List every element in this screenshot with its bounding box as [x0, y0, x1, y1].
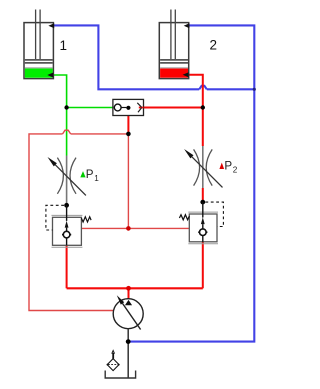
svg-text:P: P	[86, 168, 94, 181]
wire: suction line pump to tank	[127, 329, 129, 378]
PC2 inner arrow and orifice	[202, 202, 204, 217]
pump outlet triangle	[125, 300, 132, 305]
cylinder 1 port arrow top	[48, 23, 54, 28]
flow control valve V2	[184, 146, 238, 188]
wire: red flow valve 2 bottom segment	[202, 188, 204, 202]
strainer / breather	[107, 350, 120, 370]
wire: thin red compensator pilot link	[81, 227, 189, 229]
wire: blue return line cylinder 1 top to right bus	[53, 25, 254, 341]
wire: red shuttle valve outlet down	[127, 108, 129, 134]
wire: thin red load-sensing line to pump control	[29, 130, 189, 310]
pressure compensator PC1	[46, 205, 91, 247]
cylinder 1 green chamber fill	[25, 69, 53, 78]
cylinder 1 port arrow bottom	[47, 73, 53, 78]
svg-text:2: 2	[233, 166, 238, 175]
node blue T-junction	[253, 88, 256, 91]
wire: red bridge over green line	[63, 130, 71, 134]
wire: green line cylinder 1 bottom to node A	[53, 75, 113, 156]
label P1	[80, 171, 85, 177]
wire: blue bridge over red line	[199, 86, 207, 90]
svg-text:P: P	[224, 160, 232, 173]
PC2 spring	[179, 215, 189, 220]
label P2	[219, 163, 224, 169]
wire: red compensator 2 output down	[202, 242, 204, 288]
node compensator link junction	[126, 226, 131, 231]
node pilot junction 1	[64, 203, 69, 208]
cylinder 2 port arrow bottom	[183, 72, 189, 77]
wire: blue return line cylinder 2 top down right side to tank	[128, 25, 254, 341]
V2 adjustment arrow	[192, 157, 223, 188]
wire: red line cylinder 2 bottom to node B	[67, 75, 203, 289]
svg-text:1: 1	[94, 174, 99, 183]
node pump outlet junction	[126, 286, 131, 291]
PC1 inner arrow and orifice	[66, 205, 68, 221]
cylinder 2 port arrow top	[184, 23, 190, 28]
V1 adjustment arrow	[55, 165, 86, 196]
node B red junction	[201, 105, 205, 109]
shuttle ball	[114, 104, 121, 111]
PC2 pilot dashed line	[205, 202, 223, 226]
node LS junction	[126, 132, 131, 137]
cylinder 2 red chamber fill	[160, 69, 188, 78]
cylinder 1	[24, 10, 67, 79]
node shuttle outlet	[126, 106, 130, 110]
wire: red pump pressure header	[67, 287, 203, 289]
shuttle valve U3	[113, 99, 144, 115]
node pilot junction 2	[200, 200, 205, 205]
wire: red compensator 1 output down	[66, 245, 68, 288]
wire: red pump outlet riser	[128, 288, 130, 299]
shuttle right seat chevron	[137, 103, 141, 112]
cylinder 1 piston	[25, 59, 53, 61]
node tank line junction	[126, 339, 131, 344]
flow control valve V1	[48, 156, 100, 204]
cylinder 2	[159, 10, 217, 79]
red segment inside shuttle	[139, 107, 144, 109]
svg-text:2: 2	[210, 38, 218, 53]
PC1 spring	[81, 217, 91, 222]
tank T	[105, 371, 135, 379]
PC1 pilot dashed line	[46, 205, 64, 230]
wire: thin red LS drop to compensator link	[127, 134, 129, 229]
cylinder 1 rod lines	[35, 10, 37, 61]
pressure compensator PC2	[179, 202, 223, 244]
svg-text:1: 1	[60, 38, 68, 53]
pump variable arrow	[123, 303, 141, 329]
cylinder 2 rod lines	[170, 10, 172, 61]
cylinder 2 piston	[160, 59, 188, 61]
node A green junction	[64, 105, 68, 109]
pump P	[113, 295, 143, 329]
wire: red shuttle valve right inlet	[140, 107, 203, 109]
